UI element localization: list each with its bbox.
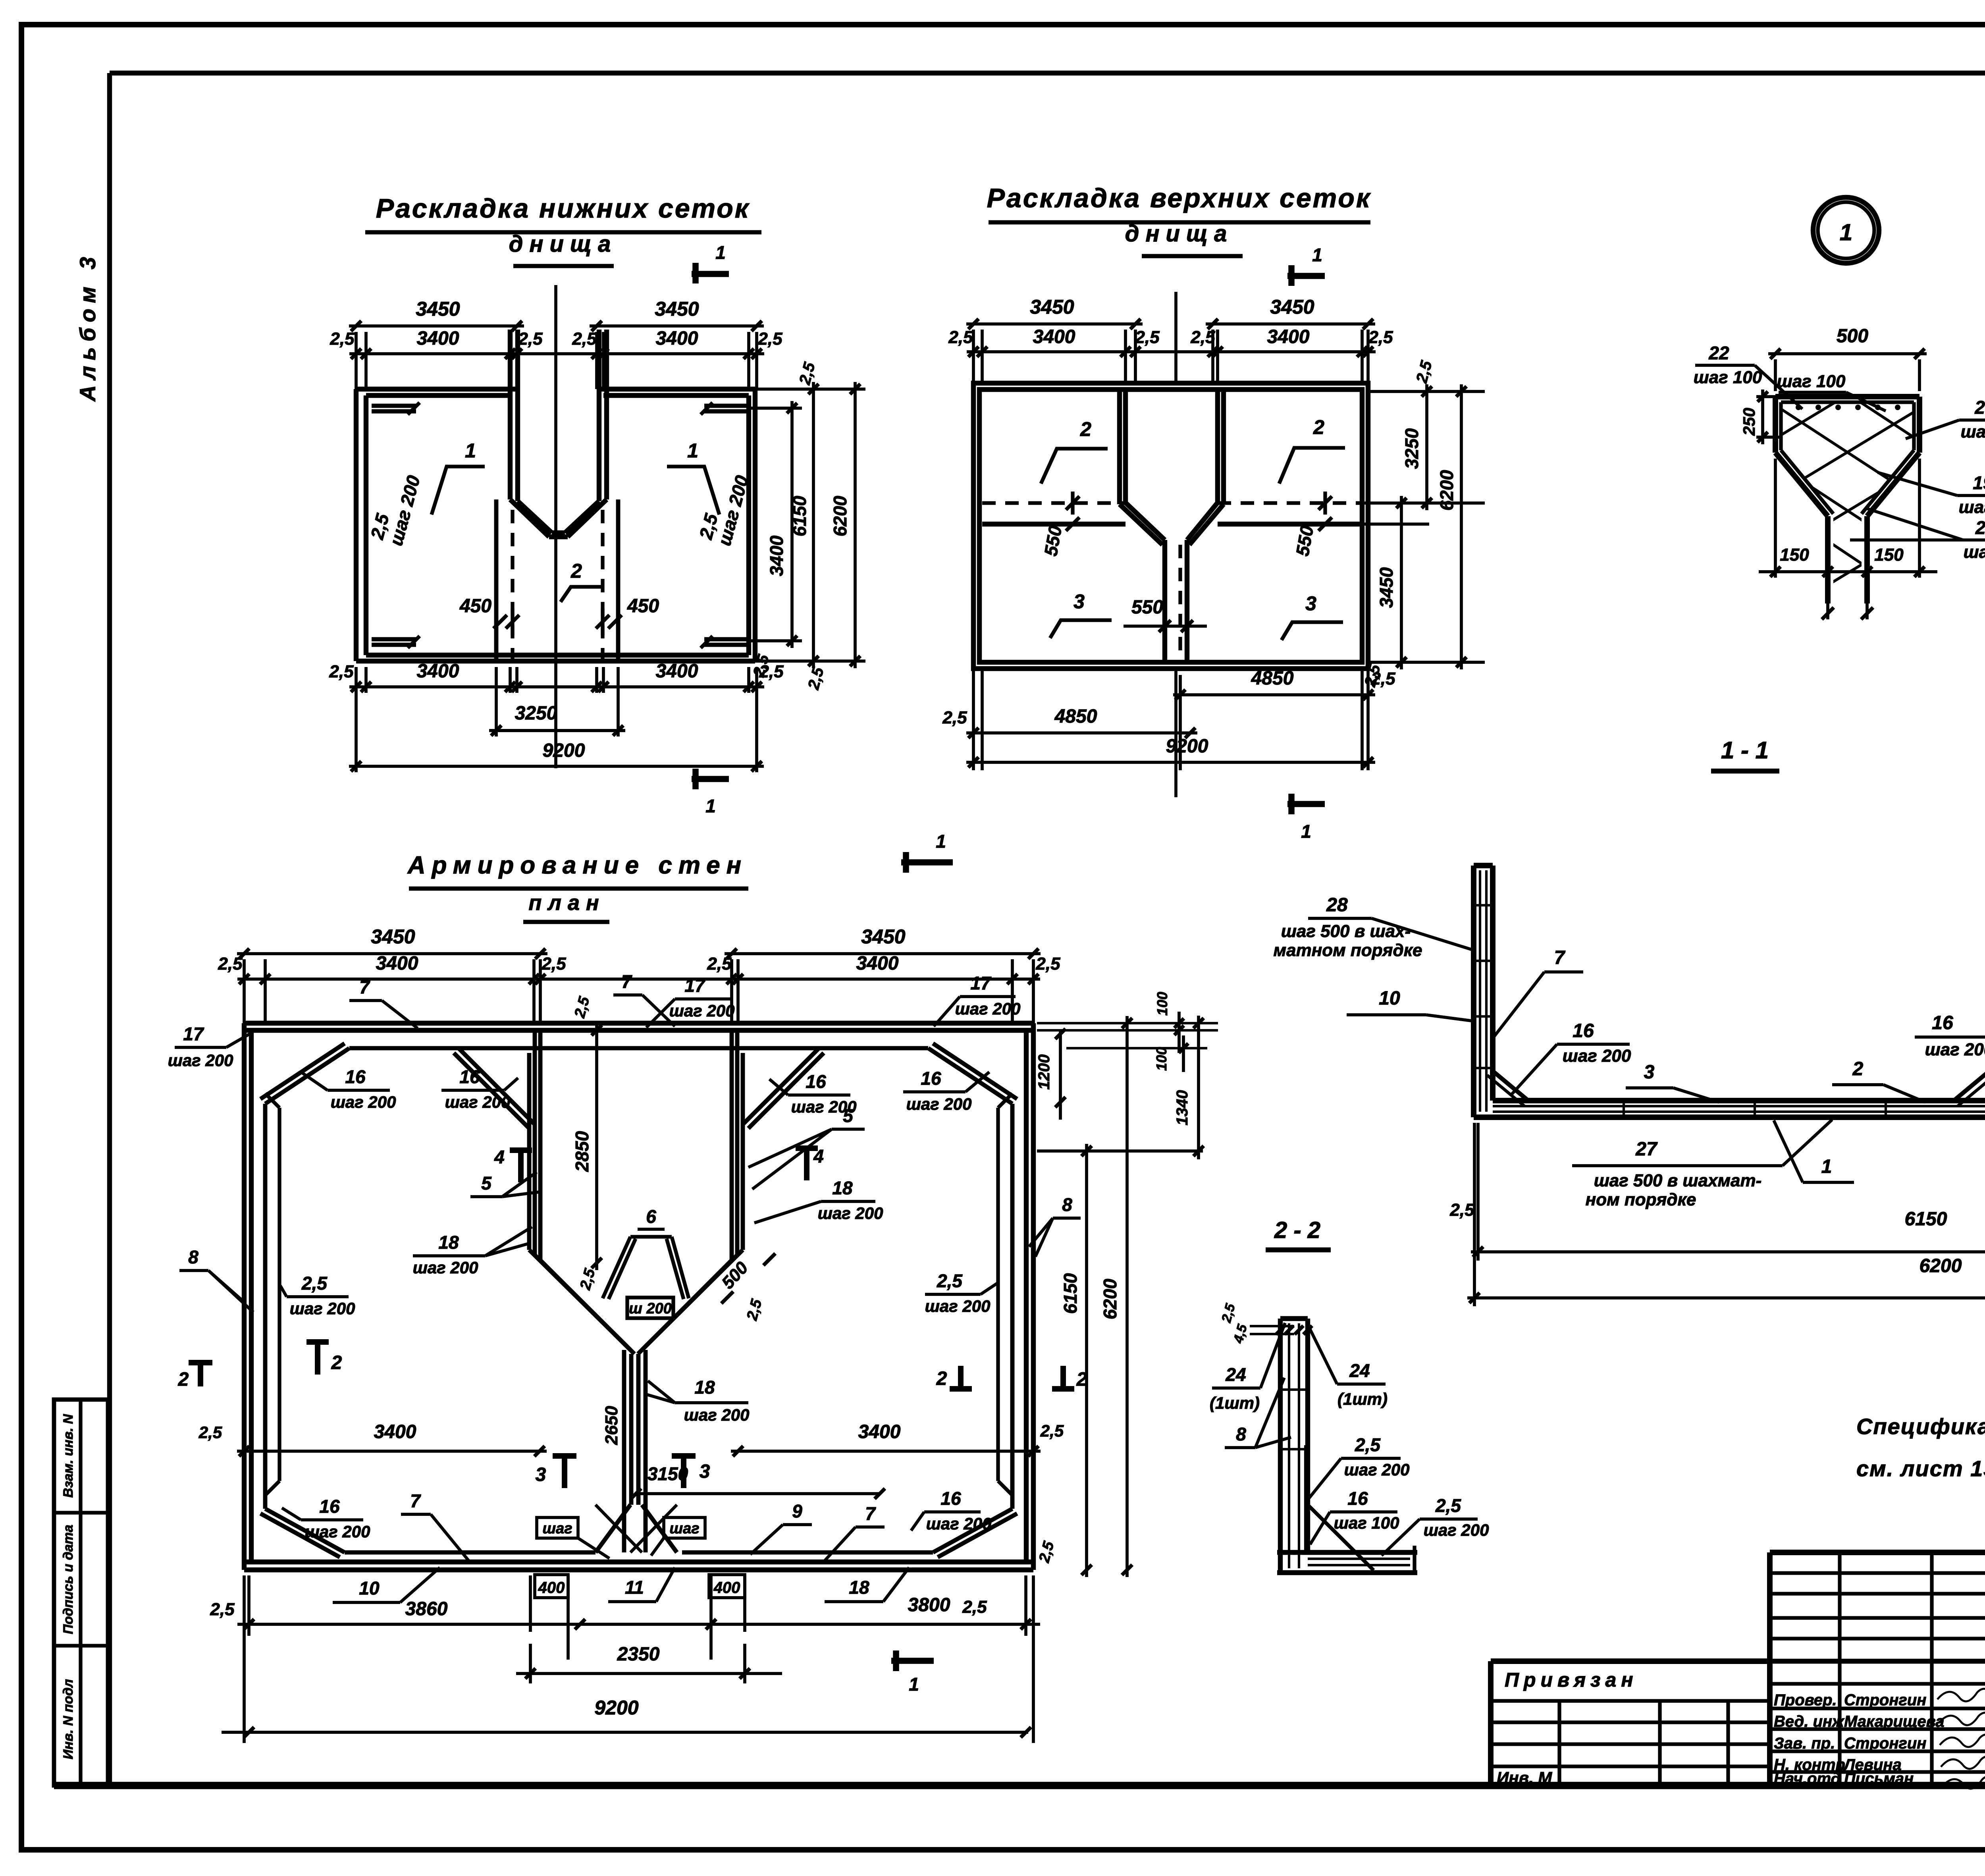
svg-text:3450: 3450 (371, 925, 415, 948)
dim 6150 right plan (1085, 1144, 1088, 1577)
section mark 4 right (804, 1147, 809, 1180)
svg-text:3: 3 (700, 1461, 710, 1482)
svg-text:6150: 6150 (789, 496, 810, 536)
upper mesh panel 2 left (1117, 391, 1122, 504)
chute V walls view B (1125, 503, 1165, 540)
svg-text:6150: 6150 (1905, 1209, 1947, 1230)
dim 3450 left top (349, 324, 524, 328)
dim 1200 right (1059, 1030, 1062, 1120)
svg-text:2: 2 (178, 1369, 189, 1390)
dashed mesh line right panel (1218, 501, 1362, 505)
dashed line left mesh 2 (511, 510, 514, 659)
svg-text:18: 18 (849, 1577, 869, 1598)
svg-text:500: 500 (1837, 326, 1868, 347)
wall rebar ticks 2-2 (1283, 1388, 1305, 1391)
svg-text:шаг 200: шаг 200 (1424, 1521, 1489, 1539)
svg-text:250: 250 (1740, 408, 1758, 436)
dim 3450 right top view B (1206, 322, 1375, 326)
chamfer top-right (928, 1048, 1012, 1104)
svg-text:шаг 200: шаг 200 (331, 1093, 396, 1111)
section axis line view B (1174, 292, 1178, 381)
svg-text:7: 7 (410, 1490, 421, 1511)
svg-text:6150: 6150 (1060, 1273, 1081, 1314)
plan inner face bottom (345, 1550, 595, 1555)
svg-text:3150: 3150 (648, 1463, 688, 1484)
stem walls (622, 1350, 626, 1552)
plan outer wall left (242, 1023, 247, 1570)
svg-text:16: 16 (921, 1068, 941, 1089)
dim 3450 left top view B (966, 322, 1143, 326)
svg-text:8: 8 (1062, 1194, 1072, 1215)
svg-text:шаг: шаг (669, 1520, 699, 1537)
svg-text:2,5: 2,5 (942, 708, 967, 727)
svg-text:ном порядке: ном порядке (1586, 1190, 1696, 1209)
svg-text:450: 450 (627, 596, 659, 617)
svg-text:2: 2 (1080, 418, 1091, 440)
inner frame top line (110, 71, 1985, 75)
dim 3250 right view B (1425, 384, 1428, 510)
svg-text:3450: 3450 (1030, 296, 1074, 318)
right cell mesh line with hooks (996, 1108, 1000, 1481)
svg-text:24: 24 (1225, 1364, 1246, 1385)
svg-text:шаг: шаг (542, 1520, 572, 1537)
svg-text:1: 1 (1301, 821, 1311, 842)
svg-text:100: 100 (1153, 1047, 1170, 1071)
chute channel dashed center (1178, 545, 1182, 662)
svg-text:2,5: 2,5 (1449, 1200, 1474, 1220)
svg-text:4850: 4850 (1251, 668, 1294, 689)
svg-text:2,5: 2,5 (329, 662, 354, 681)
svg-text:1: 1 (715, 242, 726, 263)
funnel right diagonal (642, 1255, 737, 1350)
svg-text:18: 18 (694, 1377, 715, 1398)
chute V left diagonal (510, 499, 549, 537)
mesh panel 1 left outline (354, 389, 358, 661)
right cell chamfer to funnel (744, 1048, 819, 1124)
view B outer rectangle (973, 383, 1368, 669)
svg-text:2,5: 2,5 (707, 954, 732, 974)
svg-text:21: 21 (1974, 397, 1985, 418)
svg-text:ш 200: ш 200 (629, 1300, 672, 1317)
svg-text:16: 16 (1932, 1012, 1953, 1033)
bottom extension lines plan (243, 1575, 246, 1743)
insert box sh 200 (627, 1298, 673, 1318)
svg-text:8: 8 (1236, 1424, 1246, 1444)
funnel right wall (741, 1053, 745, 1250)
svg-text:шаг 200: шаг 200 (925, 1297, 991, 1315)
svg-text:3450: 3450 (1376, 567, 1397, 608)
dim 1340 right (1197, 1016, 1200, 1159)
section mark 2 inside left cell (315, 1341, 320, 1375)
chute V right diagonal (568, 499, 607, 537)
svg-text:10: 10 (359, 1578, 380, 1598)
svg-text:1200: 1200 (1035, 1055, 1053, 1090)
hopper stem bottom ticks (1826, 603, 1829, 619)
right side extension lines view A (755, 388, 865, 391)
dim row 25 3400 25 plan (237, 978, 1040, 981)
section mark 3 right (681, 1455, 686, 1488)
hopper inner line (1781, 400, 1914, 404)
svg-text:16: 16 (806, 1071, 826, 1092)
mesh panel 1 right outline (753, 389, 757, 661)
section 2-2 foot slab (1277, 1550, 1417, 1555)
svg-text:шаг 100: шаг 100 (1334, 1514, 1399, 1532)
svg-text:3800: 3800 (908, 1595, 950, 1616)
svg-text:1: 1 (936, 831, 946, 852)
svg-text:Стронгин: Стронгин (1844, 1691, 1926, 1709)
svg-text:шаг 100: шаг 100 (1964, 542, 1985, 562)
svg-text:(1шт): (1шт) (1210, 1394, 1260, 1412)
svg-text:3400: 3400 (1033, 326, 1075, 347)
dim 6200 right side (854, 382, 857, 668)
svg-text:шаг 200: шаг 200 (684, 1406, 750, 1424)
svg-text:2 - 2: 2 - 2 (1274, 1217, 1320, 1243)
svg-text:10: 10 (1379, 988, 1400, 1009)
title block left section columns (1557, 1701, 1561, 1785)
svg-text:2: 2 (1852, 1059, 1864, 1080)
left cell chamfer to funnel (459, 1048, 534, 1124)
svg-text:3250: 3250 (515, 703, 557, 724)
svg-text:2,5: 2,5 (218, 954, 243, 974)
svg-text:2,5: 2,5 (198, 1423, 222, 1442)
extension lines top plan (243, 959, 246, 1023)
dim 6150 right side (812, 382, 815, 668)
trapezoid insert 6 (630, 1235, 672, 1238)
panel 1 left mesh tick lines (372, 404, 416, 408)
dim row 25 3400 25 top (349, 352, 764, 355)
svg-text:шаг 200: шаг 200 (818, 1204, 883, 1222)
svg-text:1: 1 (909, 1674, 919, 1695)
svg-text:(1шт): (1шт) (1337, 1390, 1388, 1408)
svg-text:6200: 6200 (830, 496, 850, 536)
svg-text:18: 18 (832, 1178, 853, 1198)
svg-text:450: 450 (459, 596, 491, 617)
svg-text:Провер.: Провер. (1774, 1691, 1837, 1709)
svg-text:Макарищева: Макарищева (1844, 1713, 1944, 1730)
hopper detail dim 500 (1768, 352, 1927, 355)
svg-text:3400: 3400 (656, 661, 698, 682)
svg-text:2,5: 2,5 (1368, 328, 1393, 347)
svg-text:3400: 3400 (417, 661, 459, 682)
plan outer wall top (244, 1021, 1033, 1026)
svg-text:6200: 6200 (1100, 1278, 1120, 1319)
svg-text:2,5: 2,5 (518, 329, 543, 349)
detail circle mark 1 (1813, 197, 1879, 263)
section 2-2 wall outer lines (1278, 1319, 1283, 1573)
svg-text:шаг 200: шаг 200 (906, 1095, 972, 1113)
plan outer wall bottom (244, 1568, 1033, 1572)
right side extension lines view B (1368, 390, 1485, 393)
svg-text:Спецификацию армирования: Спецификацию армирования емкостя (1856, 1414, 1985, 1439)
dim 9200 bottom (349, 765, 764, 768)
svg-text:3400: 3400 (656, 328, 698, 349)
svg-text:2,5: 2,5 (572, 329, 597, 349)
svg-text:17: 17 (970, 973, 992, 993)
svg-text:8: 8 (188, 1247, 198, 1267)
shag boxes bottom (537, 1517, 578, 1538)
dim 2850 funnel left (595, 1023, 598, 1270)
leader mesh 1 right (667, 467, 719, 515)
svg-text:шаг 200: шаг 200 (1563, 1046, 1631, 1066)
dim 3450 right top (590, 324, 764, 328)
top tick dims 2-2 (1250, 1325, 1294, 1327)
svg-text:Инв. N подл: Инв. N подл (61, 1679, 76, 1759)
svg-text:2,5: 2,5 (1135, 328, 1160, 347)
heavy bottom inner line (54, 1782, 1985, 1789)
svg-text:3250: 3250 (1401, 428, 1422, 469)
svg-text:7: 7 (1554, 947, 1566, 968)
tick cross left dashed (1071, 492, 1074, 515)
svg-text:2,5: 2,5 (210, 1600, 235, 1619)
plan inner face right (1010, 1104, 1015, 1509)
section mark 1 top plan (901, 859, 953, 866)
svg-text:2: 2 (331, 1352, 342, 1373)
svg-text:2,5: 2,5 (937, 1271, 963, 1291)
svg-text:2,5: 2,5 (330, 329, 355, 349)
svg-text:22: 22 (1708, 343, 1729, 363)
svg-text:16: 16 (459, 1066, 480, 1087)
svg-text:днища: днища (509, 231, 617, 257)
dim 6200 right view B (1460, 384, 1463, 669)
svg-text:2,5: 2,5 (541, 954, 566, 974)
central chute walls view A (508, 330, 513, 499)
svg-text:28: 28 (1326, 895, 1348, 916)
svg-text:400: 400 (538, 1579, 565, 1596)
section mark 2 outside right wall (1060, 1366, 1066, 1390)
dashed line right mesh 2 (601, 510, 604, 659)
svg-text:днища: днища (1125, 221, 1233, 247)
svg-text:16: 16 (940, 1488, 961, 1509)
svg-text:3: 3 (1073, 590, 1085, 613)
svg-text:1: 1 (1821, 1156, 1832, 1177)
chute channel walls view B (1162, 540, 1167, 662)
svg-text:3400: 3400 (1267, 326, 1310, 347)
section mark 4 left (518, 1149, 524, 1182)
funnel left wall (527, 1053, 532, 1250)
right haunch diagonal (1953, 1070, 1985, 1101)
dim 100 right second (1182, 1035, 1185, 1072)
svg-text:6: 6 (646, 1206, 656, 1227)
svg-text:Армирование стен: Армирование стен (407, 852, 748, 879)
chute V bottom flat (549, 534, 568, 539)
svg-text:2: 2 (570, 560, 582, 582)
svg-text:2,5: 2,5 (1040, 1421, 1064, 1440)
svg-text:3400: 3400 (766, 535, 787, 576)
bottom extension lines view B (972, 669, 975, 770)
svg-text:3400: 3400 (374, 1421, 416, 1442)
section axis line view A (554, 285, 557, 768)
svg-text:16: 16 (345, 1066, 366, 1087)
hopper outline (1775, 394, 1919, 399)
tick cross right dashed (1323, 492, 1327, 515)
svg-text:4: 4 (813, 1146, 824, 1166)
bottom dims section 1-1 (1473, 1123, 1476, 1306)
section mark 1 top of view A (692, 271, 729, 277)
dim 3250 bottom (495, 667, 498, 737)
svg-text:Письман: Письман (1844, 1770, 1914, 1787)
svg-text:17: 17 (183, 1024, 204, 1044)
svg-text:3400: 3400 (376, 953, 418, 974)
dim 3450 right top plan (725, 952, 1041, 955)
svg-text:4850: 4850 (1054, 706, 1097, 727)
svg-text:1: 1 (1840, 220, 1852, 245)
svg-text:3450: 3450 (655, 298, 699, 320)
title block outline left part (1488, 1661, 1494, 1785)
section mark 3 left (562, 1455, 567, 1488)
svg-text:Подпись и дата: Подпись и дата (61, 1525, 76, 1634)
chamfer bottom-left (265, 1509, 345, 1552)
svg-text:2,5: 2,5 (1435, 1495, 1461, 1516)
svg-text:19: 19 (1973, 472, 1985, 493)
svg-text:2,5: 2,5 (757, 329, 782, 349)
svg-text:шаг 100: шаг 100 (1959, 497, 1985, 517)
svg-text:16: 16 (1573, 1020, 1594, 1041)
svg-text:Вед. инж: Вед. инж (1774, 1713, 1845, 1730)
svg-text:6200: 6200 (1436, 470, 1457, 511)
section 1-1 left wall (1471, 866, 1476, 1117)
svg-text:2650: 2650 (602, 1406, 621, 1445)
left wall rebar lines (1479, 870, 1481, 1112)
svg-text:550: 550 (1131, 597, 1163, 618)
svg-text:3450: 3450 (861, 925, 905, 948)
section mark 2 inside right cell (958, 1366, 964, 1390)
svg-text:18: 18 (438, 1232, 459, 1253)
svg-text:3: 3 (536, 1464, 546, 1485)
svg-text:1 - 1: 1 - 1 (1721, 737, 1769, 764)
title block name table columns (1838, 1552, 1841, 1785)
svg-text:1: 1 (1312, 245, 1322, 265)
extension lines top view A (355, 332, 358, 389)
dashed mesh line left panel (982, 501, 1125, 505)
dim row 25 3400 25 view B (967, 350, 1376, 353)
section 1-1 bottom slab (1474, 1114, 1985, 1120)
svg-text:150: 150 (1874, 545, 1904, 565)
svg-text:3400: 3400 (856, 953, 899, 974)
foot diagonal 2-2 (1308, 1505, 1374, 1570)
400 box right (709, 1575, 745, 1598)
svg-text:Альбом 3: Альбом 3 (75, 251, 100, 402)
dim 3400 right side (790, 401, 794, 648)
svg-text:5: 5 (481, 1173, 492, 1193)
svg-text:шаг 200: шаг 200 (1344, 1460, 1410, 1479)
svg-text:Зав. пр.: Зав. пр. (1774, 1735, 1835, 1752)
svg-text:шаг 200: шаг 200 (168, 1051, 233, 1070)
chamfer bottom-right (933, 1509, 1012, 1552)
dim 3400 mid right (731, 1450, 1041, 1453)
svg-text:16: 16 (1347, 1488, 1368, 1509)
svg-text:шаг 200: шаг 200 (290, 1299, 355, 1318)
plan inner face left (263, 1104, 268, 1509)
svg-text:2,5: 2,5 (1370, 669, 1395, 688)
title block left section rows (1491, 1699, 1770, 1702)
svg-text:шаг 200: шаг 200 (305, 1522, 370, 1541)
svg-text:шаг 200: шаг 200 (669, 1001, 735, 1020)
dim 3450 left top plan (237, 952, 547, 955)
svg-text:2350: 2350 (617, 1644, 660, 1665)
left cell mesh line with hooks (278, 1108, 281, 1481)
svg-text:9200: 9200 (543, 740, 585, 761)
dim 4850 row1 view B (1173, 693, 1375, 696)
svg-text:2,5: 2,5 (301, 1273, 328, 1294)
400 box left (535, 1575, 568, 1598)
svg-text:7: 7 (865, 1503, 876, 1524)
title block upper table rows (1770, 1571, 1985, 1575)
section mark 1 bottom plan (891, 1658, 934, 1664)
inner frame left line (107, 73, 112, 1785)
dim 100 right top (1178, 1012, 1181, 1053)
dim 9200 row3 view B (966, 761, 1375, 764)
funnel left diagonal (535, 1255, 630, 1350)
svg-text:400: 400 (713, 1579, 740, 1596)
svg-text:24: 24 (1349, 1360, 1370, 1381)
dim 6200 right plan (1125, 1016, 1129, 1577)
svg-text:1340: 1340 (1174, 1090, 1191, 1126)
svg-text:шаг 200: шаг 200 (445, 1093, 511, 1111)
svg-text:17: 17 (684, 975, 706, 996)
svg-text:27: 27 (1635, 1139, 1658, 1160)
stem bottom X braces (595, 1505, 630, 1552)
svg-text:Раскладка нижних сеток: Раскладка нижних сеток (376, 193, 750, 224)
svg-text:шаг 500 в шахмат-: шаг 500 в шахмат- (1594, 1171, 1762, 1190)
svg-text:Стронгин: Стронгин (1844, 1735, 1926, 1752)
svg-text:5: 5 (843, 1105, 854, 1126)
svg-text:шаг 100: шаг 100 (1694, 368, 1762, 387)
bottom extension lines view A (355, 667, 358, 693)
svg-text:шаг 200: шаг 200 (1925, 1040, 1985, 1059)
svg-text:11: 11 (625, 1577, 644, 1598)
svg-text:6200: 6200 (1919, 1255, 1962, 1276)
svg-text:9200: 9200 (594, 1697, 638, 1719)
svg-text:7: 7 (359, 977, 370, 997)
svg-text:план: план (528, 891, 605, 915)
svg-text:шаг 200: шаг 200 (413, 1258, 478, 1277)
svg-text:Нач.отд: Нач.отд (1774, 1770, 1840, 1787)
chamfer top-left (265, 1048, 349, 1104)
svg-text:7: 7 (621, 971, 632, 992)
svg-text:4: 4 (494, 1147, 505, 1167)
plan outer wall right (1031, 1023, 1036, 1570)
svg-text:100: 100 (1154, 992, 1170, 1016)
hopper rebar dots (1796, 405, 1801, 410)
svg-text:9200: 9200 (1166, 736, 1208, 757)
plan inner face top (349, 1046, 928, 1051)
svg-text:3450: 3450 (416, 298, 460, 320)
svg-text:1: 1 (465, 440, 476, 462)
left margin stamp boxes (54, 1400, 108, 1785)
svg-text:матном порядке: матном порядке (1274, 941, 1422, 960)
title block main horizontal (1491, 1659, 1985, 1664)
panel 1 right mesh tick lines (704, 404, 749, 408)
svg-text:3860: 3860 (405, 1598, 448, 1620)
svg-text:2,5: 2,5 (1355, 1434, 1381, 1455)
section mark 1 top of view B (1287, 273, 1325, 279)
upper mesh panel 2 right (1215, 391, 1220, 503)
dim row bottom 25 3400 25 (349, 685, 764, 688)
svg-text:3400: 3400 (858, 1421, 901, 1442)
dim 3400 mid left (237, 1450, 547, 1453)
leader mesh 1 left (432, 467, 485, 515)
extension lines top view B (972, 330, 975, 383)
svg-text:2,5: 2,5 (1035, 954, 1060, 974)
bottom edge of panels (356, 659, 755, 663)
dim 3450 right lower view B (1400, 496, 1403, 669)
section mark 1 bottom of view B (1287, 801, 1325, 807)
svg-text:Инв. М: Инв. М (1497, 1768, 1552, 1787)
svg-text:2,5: 2,5 (962, 1597, 987, 1617)
svg-text:9: 9 (792, 1501, 802, 1521)
svg-text:шаг 100: шаг 100 (1777, 372, 1846, 391)
svg-text:2,5: 2,5 (948, 328, 973, 347)
